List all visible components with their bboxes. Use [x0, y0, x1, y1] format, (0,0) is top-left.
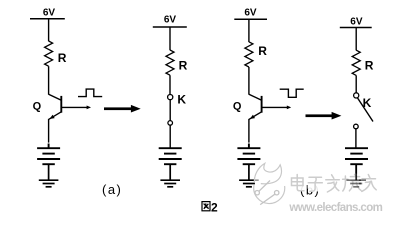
base input terminal arrowhead, circuit 1 [87, 106, 91, 110]
svg-text:R: R [365, 59, 374, 73]
base input terminal arrowhead, circuit 3 [287, 106, 291, 110]
power rail 6V, circuit 1 [30, 18, 65, 20]
svg-text:www.elecfans.com: www.elecfans.com [288, 202, 382, 214]
switch K (open), circuit 4 [354, 93, 373, 129]
battery, circuit 2 [159, 148, 182, 164]
battery, circuit 3 [237, 144, 260, 165]
wire: switch to battery, circuit 2 [169, 125, 171, 148]
svg-text:R: R [258, 44, 267, 58]
svg-text:K: K [177, 93, 186, 107]
svg-text:2: 2 [211, 200, 218, 214]
wire: resistor to collector, circuit 1 [48, 66, 50, 94]
wire: emitter to battery, circuit 1 [48, 119, 50, 143]
input pulse waveform (inverted), circuit 3 [280, 89, 304, 97]
svg-text:R: R [179, 59, 188, 73]
wire: rail to resistor R, circuit 2 [169, 27, 171, 50]
input pulse waveform, circuit 1 [78, 89, 102, 97]
svg-text:6V: 6V [350, 17, 363, 28]
烧 [343, 174, 361, 191]
wire: battery to ground, circuit 1 [48, 164, 50, 180]
svg-text:K: K [363, 96, 372, 110]
battery, circuit 4 [345, 148, 368, 164]
resistor R, circuit 4 [352, 50, 360, 75]
svg-text:R: R [58, 51, 67, 65]
wire: battery to ground, circuit 4 (visible through watermark) [355, 164, 357, 180]
battery, circuit 1 [37, 144, 60, 165]
resistor R, circuit 3 [245, 42, 253, 67]
transistor Q, circuit 3 [249, 94, 262, 119]
wire: battery to ground, circuit 3 [248, 164, 250, 180]
base input wire, circuit 1 [61, 106, 87, 108]
svg-text:6V: 6V [164, 15, 177, 26]
ground, circuit 3 [239, 180, 259, 187]
figure label 图2 [202, 200, 218, 214]
wire: battery to ground, circuit 2 [169, 164, 171, 180]
power rail 6V, circuit 4 [340, 27, 372, 29]
电 [292, 175, 305, 191]
wire: battery to ground, circuit 4 [355, 164, 357, 180]
ground, circuit 4 (visible through watermark) [346, 180, 366, 187]
wire: emitter to battery, circuit 3 [248, 119, 250, 143]
wire: rail to resistor R, circuit 4 [355, 28, 357, 51]
svg-text:Q: Q [233, 100, 242, 112]
子 [308, 177, 322, 191]
switch K (closed), circuit 2 [168, 95, 173, 126]
equivalence arrow 2 [306, 112, 342, 120]
watermark text 电子发烧友 [290, 174, 378, 193]
equivalence arrow 1 [104, 105, 141, 113]
transistor Q, circuit 1 [49, 94, 62, 119]
wire: switch to battery, circuit 4 [355, 129, 357, 148]
wire: resistor to switch, circuit 2 [169, 75, 171, 94]
wire: resistor to collector, circuit 3 [248, 67, 250, 95]
ground, circuit 4 [346, 180, 366, 187]
svg-text:(a): (a) [102, 182, 122, 197]
发 [326, 175, 340, 192]
resistor R, circuit 2 [166, 50, 174, 75]
友 [362, 175, 376, 192]
base input wire, circuit 3 [262, 106, 288, 108]
wire: rail to resistor R, circuit 3 [248, 19, 250, 42]
ground, circuit 2 [160, 180, 180, 187]
resistor R, circuit 1 [45, 41, 53, 66]
wire: rail to resistor R, circuit 1 [48, 19, 50, 42]
svg-text:6V: 6V [43, 7, 56, 18]
ground, circuit 1 [39, 180, 59, 187]
power rail 6V, circuit 2 [153, 26, 187, 28]
watermark url www.elecfans.com [288, 202, 383, 215]
svg-text:Q: Q [33, 100, 42, 112]
power rail 6V, circuit 3 [234, 18, 267, 20]
svg-text:6V: 6V [244, 8, 257, 19]
wire: resistor to switch, circuit 4 [355, 75, 357, 92]
watermark logo (elecfans) [254, 163, 285, 204]
